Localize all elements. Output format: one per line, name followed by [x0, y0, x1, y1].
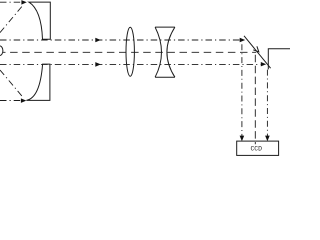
wire ray bottom marginal (y=100.5) dash-dot	[0, 100, 21, 102]
wire vertical ray right (to CCD) dash-dot	[266, 70, 268, 138]
wire ray axial middle (y=52.3) dashed	[3, 51, 256, 53]
arrow bottom ray at fold mirror	[261, 62, 266, 66]
wire diverging ray lower (diagonal)	[0, 70, 22, 96]
arrow bottom ray mid	[95, 62, 101, 67]
wire diverging ray upper (diagonal)	[0, 5, 23, 32]
arrow bottom marginal ray	[21, 98, 26, 103]
arrow top marginal ray	[21, 0, 26, 5]
CCD box	[237, 141, 279, 155]
arrow top ray mid	[95, 38, 101, 43]
lens L1 convex	[126, 27, 134, 76]
arrow vertical left into CCD	[240, 136, 245, 142]
arrow vertical right into CCD	[265, 136, 270, 142]
mirror M1 upper segment (concave collimating mirror, top half)	[29, 2, 50, 39]
arrow top ray at fold mirror	[240, 38, 246, 43]
mirror M2 fold mirror 45deg	[244, 36, 271, 68]
wire ray top marginal (y=2) dash-dot	[0, 1, 22, 3]
arrow middle ray at fold mirror (open)	[253, 46, 258, 52]
wire ray bottom collimated (y=64.4) dash-dot	[0, 63, 261, 65]
mirror M1 lower segment (concave collimating mirror, bottom half)	[26, 64, 50, 100]
wire vertical ray middle (to CCD) dashed	[254, 55, 256, 145]
wire vertical ray left (to CCD) dash-dot	[241, 44, 243, 138]
lens L2 biconcave outline	[155, 27, 175, 77]
source S (point source at left edge)	[0, 46, 3, 56]
svg-text:CCD: CCD	[250, 146, 262, 153]
mirror M2 mount corner	[268, 49, 290, 70]
wire ray top collimated (y=40) dash-dot	[0, 39, 241, 41]
